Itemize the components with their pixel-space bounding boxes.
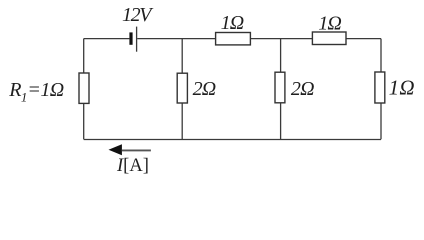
resistor 1-ohm top-right body <box>312 32 346 45</box>
wire left vertical lower <box>83 103 85 139</box>
svg-text:1Ω: 1Ω <box>389 76 415 100</box>
svg-text:I[A]: I[A] <box>116 156 149 176</box>
wire middle branch 2 upper <box>280 39 282 73</box>
wire battery to first 1-ohm resistor <box>137 38 215 40</box>
resistor 2-ohm #2 body <box>275 72 285 103</box>
wire middle branch 1 lower <box>181 103 183 139</box>
svg-text:12V: 12V <box>122 4 154 26</box>
wire right vertical upper <box>380 39 382 73</box>
wire between top resistors <box>250 38 312 40</box>
wire bottom horizontal <box>84 139 381 141</box>
wire top-left segment <box>84 38 130 40</box>
battery V1 thick plate <box>129 32 132 44</box>
wire left vertical upper <box>83 39 85 74</box>
wire middle branch 2 lower <box>280 103 282 140</box>
svg-text:1Ω: 1Ω <box>318 12 341 34</box>
battery V1 thin plate <box>136 27 138 52</box>
svg-text:R1=1Ω: R1=1Ω <box>8 79 63 105</box>
resistor 1-ohm right body <box>375 72 385 103</box>
wire top-right segment <box>346 38 381 40</box>
current arrow head <box>109 144 122 155</box>
wire right vertical lower <box>380 103 382 139</box>
resistor 1-ohm top-left body <box>216 33 251 45</box>
svg-text:2Ω: 2Ω <box>291 78 314 100</box>
svg-text:2Ω: 2Ω <box>193 78 216 100</box>
wire middle branch 1 upper <box>181 39 183 74</box>
resistor 2-ohm #1 body <box>177 73 187 103</box>
svg-text:1Ω: 1Ω <box>221 12 244 34</box>
current arrow tail <box>122 149 151 151</box>
resistor R1 body <box>79 73 89 103</box>
